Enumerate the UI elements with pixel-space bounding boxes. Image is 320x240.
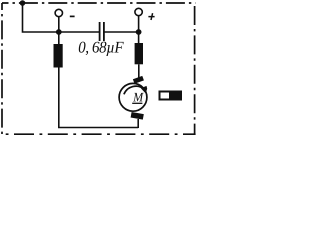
housing border top (dash-dot)	[2, 2, 196, 4]
node plus junction	[136, 29, 142, 35]
wire housing to bus	[23, 3, 100, 32]
choke L1 (left suppression choke)	[54, 44, 63, 68]
node minus junction	[56, 29, 62, 35]
capacitor C plate right	[103, 22, 105, 41]
junction dot on housing	[20, 0, 26, 6]
choke L2 lead top	[138, 32, 140, 43]
terminal plus lead	[138, 15, 140, 32]
choke L1 lead	[58, 32, 60, 44]
rotation arrow head	[141, 86, 147, 94]
wire L1 to bottom corner	[59, 68, 138, 128]
capacitor value label 0,68uF	[79, 42, 124, 56]
wire bottom stub to brush	[137, 119, 139, 128]
motor M1 bottom brush	[131, 112, 144, 120]
choke L2 lead to brush	[138, 64, 140, 78]
housing border right (dash-dot)	[194, 3, 196, 134]
motor letter M underline	[132, 102, 142, 104]
motor M1 body circle	[119, 83, 147, 111]
label plus	[148, 13, 154, 20]
motor letter M	[133, 93, 144, 102]
connector block filled half	[169, 91, 182, 101]
housing border left (dash-dot)	[1, 3, 3, 134]
choke L2 (right suppression choke)	[135, 43, 143, 64]
capacitor C plate left	[99, 22, 101, 41]
terminal minus circle	[55, 9, 62, 16]
terminal minus lead	[58, 16, 60, 32]
rotation arrow arc	[124, 86, 144, 94]
wire capacitor to plus junction	[105, 31, 139, 33]
connector block outline	[160, 92, 182, 100]
housing border bottom (dash-dot)	[2, 133, 196, 135]
motor M1 top brush	[133, 76, 144, 84]
label minus	[70, 15, 75, 17]
terminal plus circle	[135, 8, 142, 15]
